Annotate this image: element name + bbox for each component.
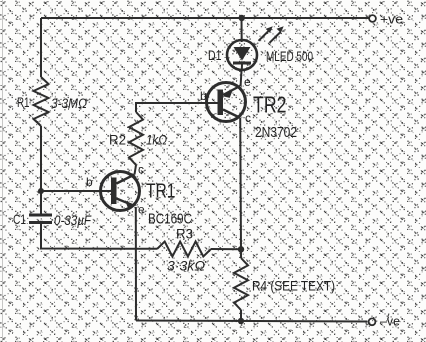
svg-text:R3: R3 <box>176 227 193 242</box>
wire: C1 bottom to lower-left corner then right to R3 <box>41 224 157 249</box>
svg-text:3·3kΩ: 3·3kΩ <box>167 258 205 274</box>
svg-text:BC169C: BC169C <box>148 211 192 228</box>
wire: R2 top corner and across to TR2 base <box>136 103 219 112</box>
wire: bottom rail <box>136 321 368 322</box>
wire: TR1 collector up to R2 <box>135 165 137 175</box>
wire: TR2 collector down to junction <box>239 118 242 249</box>
svg-text:R4 (SEE TEXT): R4 (SEE TEXT) <box>252 279 335 294</box>
terminal +ve <box>369 15 376 22</box>
svg-text:+ve: +ve <box>380 12 403 27</box>
svg-text:b: b <box>200 89 207 103</box>
transistor TR2 <box>200 75 297 141</box>
wire: left vertical from R1 to C1 <box>40 126 42 214</box>
svg-text:3-3MΩ: 3-3MΩ <box>51 95 87 111</box>
svg-text:R2: R2 <box>109 133 126 148</box>
svg-text:0-33µF: 0-33µF <box>54 212 92 228</box>
node: junction LED / top rail <box>239 15 245 21</box>
resistor R2 <box>129 112 143 165</box>
svg-text:1kΩ: 1kΩ <box>146 132 167 148</box>
svg-text:R1: R1 <box>17 95 30 110</box>
svg-text:TR2: TR2 <box>253 92 287 118</box>
wire: TR2 emitter up to LED <box>240 70 243 86</box>
wire: TR1 base wire <box>41 190 112 192</box>
svg-text:C1: C1 <box>13 212 26 227</box>
LED emission arrow 2 <box>270 26 284 43</box>
node: junction base tap <box>38 188 44 194</box>
node: junction R4 / bottom rail <box>238 318 244 324</box>
svg-text:c: c <box>138 163 144 177</box>
resistor R1 <box>34 77 49 126</box>
resistor R3 <box>157 242 211 257</box>
svg-text:TR1: TR1 <box>146 180 176 203</box>
terminal -ve <box>369 318 376 325</box>
LED D1 <box>208 18 313 70</box>
capacitor C1 <box>29 214 52 217</box>
wire: left vertical from top rail to R1 <box>40 18 42 77</box>
wire: TR1 emitter down to bottom rail <box>135 207 137 321</box>
resistor R4 <box>240 249 242 258</box>
svg-text:e: e <box>244 75 251 89</box>
node: junction TR2 collector / R3 / R4 <box>238 246 244 252</box>
svg-text:MLED 500: MLED 500 <box>266 49 313 64</box>
wire: top supply rail <box>41 17 369 19</box>
svg-text:c: c <box>245 111 251 125</box>
transistor TR1 <box>86 163 192 228</box>
svg-text:–ve: –ve <box>380 314 400 329</box>
svg-text:D1: D1 <box>208 48 222 63</box>
LED emission arrow 1 <box>259 26 273 41</box>
wire: R3 to junction <box>211 248 241 250</box>
svg-text:b: b <box>86 175 93 189</box>
svg-text:e: e <box>138 203 145 217</box>
svg-text:2N3702: 2N3702 <box>255 124 297 141</box>
